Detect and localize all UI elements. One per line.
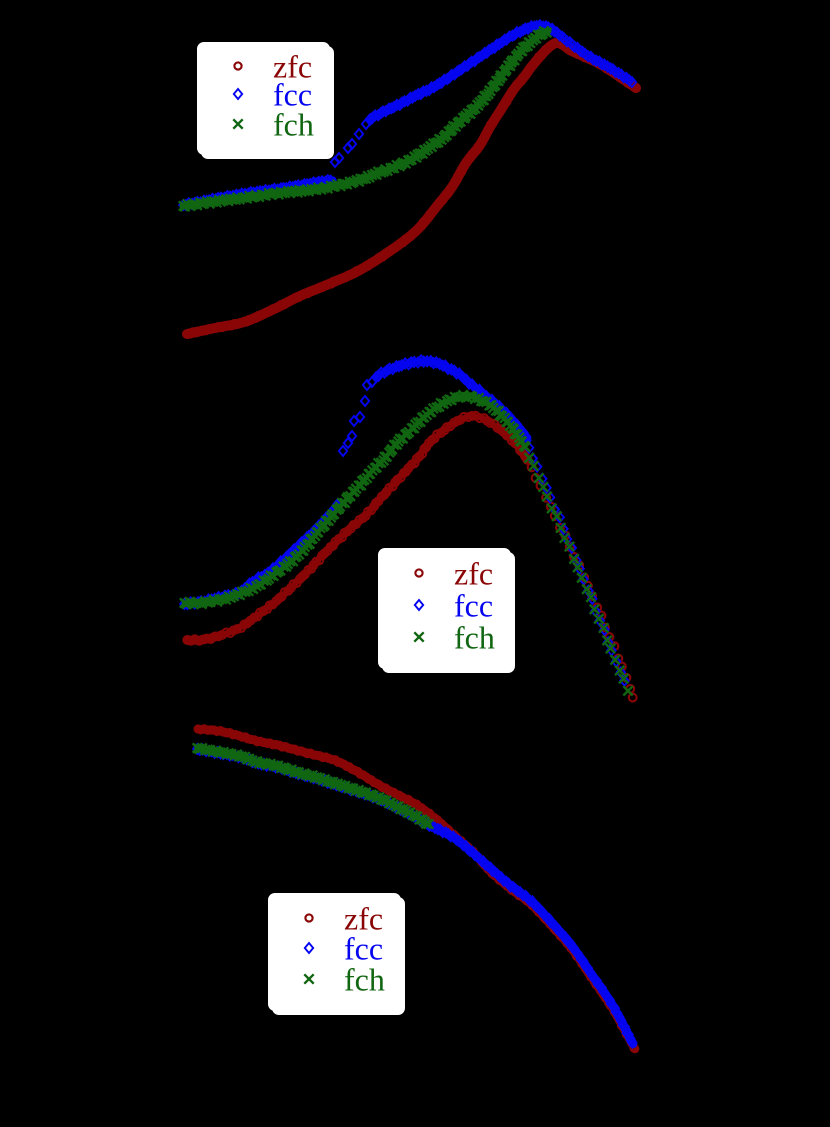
legend 1 zfc entry (234, 49, 312, 85)
panel2 fcc plateau (376, 361, 528, 440)
panel1 fcc jump points (331, 115, 374, 167)
panel2 fcc jump points (339, 377, 376, 456)
panel3 fch curve (197, 748, 429, 825)
panel3 zfc curve (198, 729, 635, 1049)
panel2 zfc curve (187, 416, 528, 640)
panel2 fcc tail (525, 443, 629, 686)
legend 1 fcc entry (234, 77, 312, 113)
legend 2 fcc entry (415, 588, 493, 624)
legend 3 fcc entry (305, 931, 383, 967)
svg-text:fch: fch (454, 620, 495, 656)
panel1 fcc descent (552, 29, 632, 82)
panel2 fch tail (521, 442, 633, 695)
legend 3 fch entry (304, 962, 385, 998)
legend 1 fch entry (233, 107, 314, 143)
svg-text:fcc: fcc (454, 588, 493, 624)
panel2 zfc start blob (187, 637, 215, 640)
panel1 zfc curve (187, 43, 636, 334)
panel1 fch curve (183, 31, 548, 206)
legend 2 zfc entry (415, 556, 493, 592)
svg-text:fch: fch (273, 107, 314, 143)
legend box 1 (197, 42, 334, 159)
legend box 3 (268, 893, 405, 1015)
panel3 fcc curve (197, 749, 633, 1044)
panel1 fcc lower branch (183, 180, 333, 205)
legend 2 fch entry (414, 620, 495, 656)
svg-text:zfc: zfc (454, 556, 493, 592)
svg-text:fch: fch (344, 962, 385, 998)
panel1 fcc upper branch (370, 26, 552, 119)
panel2 fcc lower branch (184, 503, 339, 604)
legend 3 zfc entry (305, 901, 383, 937)
panel2 fch curve (184, 396, 525, 603)
legend box 2 (378, 548, 515, 673)
panel2 zfc tail (528, 463, 637, 701)
